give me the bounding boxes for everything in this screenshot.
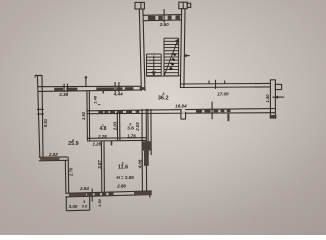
svg-text:3.00: 3.00	[69, 204, 78, 209]
svg-text:4.44: 4.44	[113, 92, 123, 97]
svg-text:2.70: 2.70	[69, 167, 74, 177]
svg-text:2.03: 2.03	[112, 121, 117, 131]
svg-text:1.76: 1.76	[127, 134, 136, 139]
svg-text:16.04: 16.04	[175, 104, 187, 109]
svg-text:1.92: 1.92	[81, 111, 86, 120]
svg-text:H = 2.80: H = 2.80	[116, 175, 134, 180]
svg-text:5.61: 5.61	[43, 118, 48, 127]
svg-text:1.48: 1.48	[92, 95, 97, 104]
svg-text:1.28: 1.28	[93, 142, 102, 147]
svg-text:11.6: 11.6	[118, 165, 128, 171]
svg-text:3.87: 3.87	[97, 160, 102, 169]
svg-text:36.2: 36.2	[158, 96, 169, 102]
svg-text:2.28: 2.28	[97, 134, 107, 139]
svg-text:1.50: 1.50	[97, 198, 102, 207]
svg-text:2.03: 2.03	[135, 122, 140, 132]
svg-text:2.60: 2.60	[159, 22, 169, 27]
svg-text:25.9: 25.9	[68, 141, 79, 147]
svg-text:3.6: 3.6	[127, 125, 134, 131]
svg-text:2.86: 2.86	[116, 184, 126, 189]
svg-text:1.40: 1.40	[265, 94, 270, 103]
svg-text:4.06: 4.06	[138, 159, 143, 169]
svg-text:5: 5	[83, 200, 85, 204]
svg-text:2.02: 2.02	[48, 152, 58, 157]
svg-text:2.64: 2.64	[79, 186, 89, 191]
svg-text:17.00: 17.00	[217, 91, 229, 96]
svg-text:4.8: 4.8	[100, 126, 107, 132]
svg-text:3.38: 3.38	[59, 92, 68, 97]
